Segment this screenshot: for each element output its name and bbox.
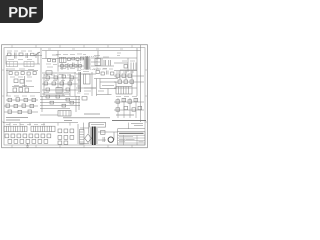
transformer T2 windings — [90, 129, 98, 143]
resistor R19 — [130, 80, 134, 83]
label text — [56, 53, 86, 56]
title block divider — [124, 135, 138, 145]
capacitor C8 — [22, 104, 26, 107]
transistor Q1 — [84, 74, 91, 84]
diode D2 — [131, 63, 136, 70]
label text — [46, 64, 57, 67]
resistor R6 — [13, 88, 17, 92]
label text — [94, 56, 109, 58]
resistor R7 — [46, 76, 50, 79]
label text — [8, 68, 34, 71]
pin squares row 2 — [8, 140, 48, 144]
capacitor C5 — [68, 82, 72, 85]
capacitor C10 — [50, 101, 54, 104]
wire — [7, 68, 40, 96]
IC U2 — [56, 88, 62, 94]
lower-left wires — [4, 100, 38, 112]
resistor R21 — [16, 98, 20, 101]
wire — [6, 63, 40, 65]
capacitor C2 — [26, 53, 28, 58]
line filter choke L1 — [19, 53, 23, 56]
diode D4 — [116, 74, 120, 77]
diode D16 — [134, 98, 138, 101]
capacitor C11 — [62, 104, 66, 107]
diode D8 — [18, 110, 22, 113]
pin squares row 1 — [5, 134, 51, 138]
line filter block LF2 — [24, 62, 34, 67]
jumper squares block — [58, 129, 74, 144]
wire degauss row — [6, 70, 38, 72]
wire AC line top — [6, 55, 42, 57]
capacitor C6 — [6, 104, 10, 107]
wire — [6, 52, 40, 65]
resistor R16 — [101, 72, 104, 75]
wire vertical far right — [140, 45, 142, 122]
wire — [97, 79, 112, 95]
title block rows — [118, 135, 146, 143]
label text — [7, 50, 32, 52]
capacitor C1 — [15, 53, 17, 59]
diode D17 — [61, 65, 64, 68]
toroid coil L2 — [108, 137, 113, 142]
label text — [122, 60, 135, 62]
wire heavy ground bus — [112, 120, 146, 122]
wire right bus — [136, 48, 138, 96]
label text — [97, 68, 113, 71]
diode D6 — [128, 74, 132, 77]
title block frame — [118, 132, 146, 146]
regulator block U4 — [116, 87, 132, 95]
ground — [26, 144, 29, 148]
diode D19 — [111, 72, 114, 75]
label box — [90, 122, 106, 127]
fuse F1 — [8, 53, 12, 56]
label text — [14, 85, 27, 87]
resistor R12 — [60, 82, 64, 85]
diode D14 — [122, 98, 126, 101]
title block text — [119, 137, 144, 142]
PDF badge text — [9, 7, 36, 17]
resistor R11 — [52, 82, 56, 85]
label text — [116, 96, 137, 98]
diode D3 — [62, 75, 66, 78]
resistor R25 — [101, 131, 106, 135]
capacitor C7 — [14, 104, 18, 107]
wire — [40, 96, 76, 115]
resistor R24 — [82, 97, 87, 101]
label text — [93, 68, 107, 70]
wire — [44, 74, 70, 96]
resistor R4 — [15, 72, 18, 75]
right lower cluster wires — [114, 102, 144, 110]
shield enclosure — [81, 57, 98, 70]
resistor R9 — [70, 76, 74, 79]
capacitor C3 — [104, 60, 106, 66]
capacitor C12 — [116, 108, 120, 111]
label text — [6, 95, 35, 97]
transformer T2 core — [93, 127, 95, 146]
label text — [8, 59, 32, 61]
label text — [116, 71, 134, 73]
far right cluster wires — [114, 71, 144, 89]
resistor R27 — [70, 65, 73, 68]
diode D21 — [25, 88, 29, 92]
capacitor C9 — [30, 104, 34, 107]
resistor R30 — [79, 65, 82, 68]
zone letter text — [48, 48, 123, 50]
label text — [117, 53, 121, 56]
sheet outer border — [2, 45, 148, 148]
label text — [44, 93, 69, 96]
label text — [60, 68, 75, 70]
resistor R1 — [31, 53, 35, 56]
capacitor C21 — [21, 72, 24, 75]
label text top-right — [131, 123, 143, 125]
posistor PT1 — [14, 79, 18, 83]
resistor R3 — [72, 57, 75, 60]
resistor R10 — [44, 82, 48, 85]
diode D18 — [65, 65, 68, 68]
label text — [64, 114, 100, 121]
capacitor C22 — [19, 88, 23, 93]
wire bus above connectors — [3, 122, 78, 124]
wire top bus — [42, 50, 141, 52]
resistor R15 — [96, 71, 99, 74]
resistor R20 — [8, 98, 12, 101]
transformer T1 windings — [84, 58, 91, 68]
diode D13 — [116, 100, 120, 103]
capacitor C23 — [76, 58, 79, 61]
diode D22 — [80, 57, 83, 60]
resistor R23 — [32, 98, 36, 101]
sheet inner border — [4, 48, 145, 145]
wire — [12, 86, 34, 88]
connector CN1 — [4, 126, 27, 131]
diode D11 — [56, 95, 60, 98]
label text — [6, 124, 45, 126]
wire — [114, 58, 137, 72]
relay RL1 — [20, 80, 24, 84]
secondary ladder wires — [40, 97, 80, 109]
wire — [77, 124, 79, 144]
resistor R18 — [124, 80, 128, 83]
resistor R2 — [68, 58, 71, 61]
snubber network box — [95, 59, 101, 66]
label text — [26, 80, 32, 82]
wire — [118, 98, 136, 118]
wire — [76, 72, 96, 96]
capacitor C19 — [48, 59, 51, 62]
label text — [116, 114, 134, 116]
PDF badge — [0, 0, 43, 23]
connector CN2 — [80, 130, 85, 145]
label text — [83, 72, 91, 95]
auxiliary box — [46, 71, 52, 74]
resistor R5 — [27, 72, 30, 75]
label text — [6, 118, 28, 121]
wire — [58, 51, 84, 72]
varistor RV1 — [35, 54, 37, 59]
resistor R8 — [54, 76, 58, 79]
resistor R17 — [118, 80, 122, 83]
diode D15 — [128, 100, 132, 103]
wire — [42, 51, 58, 59]
capacitor C4 — [109, 60, 111, 66]
bridge rectifier BR1 — [85, 134, 92, 142]
IC U5 — [58, 111, 71, 117]
wire — [84, 123, 89, 134]
label text — [98, 90, 104, 92]
capacitor C20 — [107, 71, 109, 75]
label text — [77, 71, 81, 94]
wire — [94, 79, 118, 97]
wire — [128, 123, 130, 129]
border zone ticks — [2, 45, 148, 148]
diode D20 — [33, 72, 36, 75]
revision box line — [118, 129, 146, 132]
transformer T1 core — [86, 57, 88, 70]
capacitor C13 — [124, 106, 128, 109]
label text — [10, 76, 32, 78]
diode D5 — [122, 74, 126, 77]
diode D9 — [28, 110, 32, 113]
wire — [120, 69, 137, 71]
diode D1 — [124, 65, 128, 69]
capacitor C15 — [138, 106, 142, 109]
capacitor C14 — [132, 108, 136, 111]
capacitor C16 — [103, 137, 105, 142]
label text — [45, 80, 73, 82]
capacitor C24 — [74, 65, 77, 68]
connector CN2A — [31, 126, 55, 131]
wire — [80, 128, 108, 144]
resistor R22 — [24, 98, 28, 101]
wire — [91, 51, 114, 66]
resistor R26 — [53, 59, 56, 62]
wire long horizontal — [63, 117, 110, 119]
chopper transistor Q1 heatsink — [79, 72, 81, 92]
wire — [78, 96, 80, 110]
diode D10 — [46, 95, 50, 98]
wire — [63, 72, 75, 96]
label text — [44, 74, 71, 77]
wire — [108, 132, 118, 140]
diode D7 — [8, 110, 12, 113]
resistor R14 — [66, 88, 70, 91]
thermistor TH1 — [9, 72, 12, 75]
diode D12 — [66, 98, 70, 101]
IC U1 — [60, 57, 67, 62]
opto-isolator U3 — [100, 82, 116, 89]
wire rows center-left — [42, 72, 76, 74]
title block header text — [119, 132, 144, 134]
wire vertical bus left-center — [40, 48, 42, 96]
line filter block LF1 — [7, 62, 18, 67]
resistor R13 — [46, 88, 50, 91]
resistor R29 — [70, 101, 74, 104]
capacitor C17 — [73, 63, 75, 67]
